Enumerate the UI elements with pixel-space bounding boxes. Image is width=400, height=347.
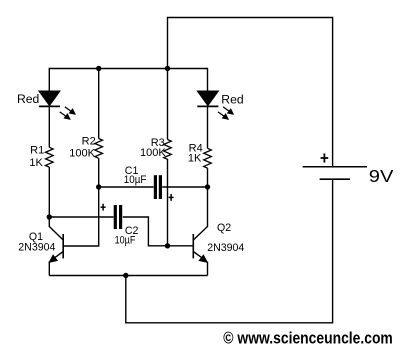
wire C1 left — [99, 186, 154, 188]
wire R1 bottom to C2 node — [48, 167, 50, 227]
junction node C1 right — [205, 184, 210, 189]
svg-text:Q2: Q2 — [217, 222, 231, 234]
wire ground return to battery — [126, 179, 333, 323]
svg-text:10µF: 10µF — [124, 174, 147, 186]
junction node C1 left — [96, 184, 101, 189]
junction node R2 top — [96, 66, 101, 71]
svg-text:2N3904: 2N3904 — [207, 242, 244, 254]
wire R3 column top — [167, 69, 169, 140]
capacitor C1 plates — [155, 175, 160, 199]
wire R2 column top — [98, 69, 100, 139]
wire C2 right to Q2 base — [123, 217, 193, 246]
LED D1 light arrows — [60, 107, 75, 119]
wire outer top rail — [168, 18, 333, 167]
transistor Q2 — [193, 227, 207, 276]
transistor Q1 — [49, 227, 63, 276]
svg-text:Red: Red — [17, 92, 39, 106]
wire bottom emitter rail — [49, 275, 207, 277]
wire C2 left — [49, 216, 113, 218]
wire LED2 to R4 — [207, 106, 209, 148]
wire R3 bottom to Q2 base node — [167, 159, 169, 246]
junction node C2 left — [47, 214, 52, 219]
svg-text:10µF: 10µF — [115, 234, 136, 246]
LED D2 light arrows — [218, 107, 233, 119]
wire C1 right — [162, 186, 207, 188]
resistor R2 — [95, 139, 103, 159]
svg-text:© www.scienceuncle.com: © www.scienceuncle.com — [223, 328, 392, 347]
capacitor C2 plates — [115, 205, 120, 229]
svg-text:100K: 100K — [69, 147, 95, 159]
svg-text:Red: Red — [221, 93, 243, 107]
svg-text:9V: 9V — [369, 166, 394, 186]
resistor R3 — [164, 140, 172, 160]
LED D2 (Red) triangle — [197, 91, 218, 106]
junction node ground tap — [123, 273, 128, 278]
resistor R4 — [204, 148, 212, 168]
svg-text:R1: R1 — [30, 145, 44, 157]
svg-text:1K: 1K — [188, 152, 202, 164]
svg-text:2N3904: 2N3904 — [18, 242, 55, 254]
C1 polarity + — [169, 194, 174, 201]
wire LED1 to R1 — [48, 106, 50, 147]
wire R2 bottom through C1 node to Q1 base corner — [64, 158, 99, 246]
svg-text:100K: 100K — [140, 147, 166, 159]
resistor R1 — [46, 147, 54, 167]
battery B1 9V — [303, 167, 367, 179]
svg-text:R2: R2 — [82, 135, 96, 147]
junction node Q2 base — [165, 243, 170, 248]
LED D1 (Red) triangle — [39, 91, 60, 106]
C2 polarity + — [101, 204, 106, 211]
wire inner top rail — [49, 69, 207, 92]
junction node R3 top — [165, 66, 170, 71]
wire R4 bottom through C1 node to Q2 collector — [207, 168, 209, 227]
svg-text:1K: 1K — [29, 157, 43, 169]
battery polarity + — [321, 153, 329, 162]
